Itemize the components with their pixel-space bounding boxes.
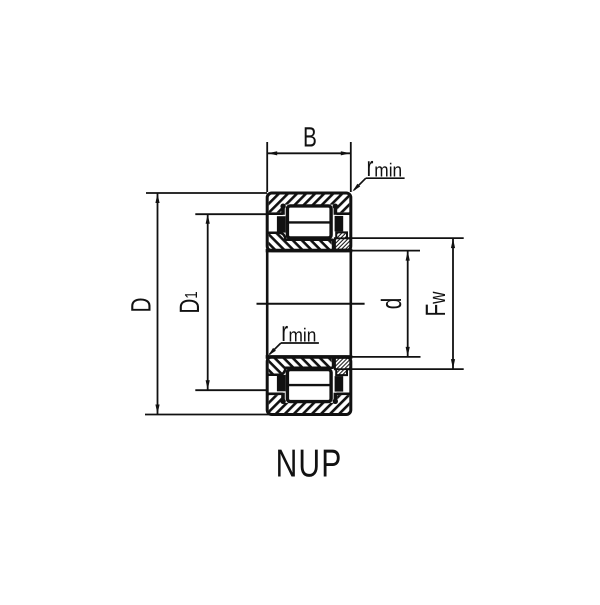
loose flange bottom mid line xyxy=(335,368,351,370)
inner ring bottom raceway xyxy=(284,366,333,369)
center axis xyxy=(257,303,365,305)
D1 extension line top xyxy=(195,213,267,215)
pocket corner dot bottom left xyxy=(280,399,285,404)
bore line top xyxy=(266,249,353,253)
d dimension line xyxy=(407,251,409,357)
inner ring bottom right face xyxy=(332,357,334,368)
roller top mid line xyxy=(286,221,332,223)
r min top arrow xyxy=(352,184,360,192)
right face mid segment xyxy=(349,249,352,359)
D dimension line xyxy=(157,193,159,415)
pocket corner dot top right xyxy=(333,204,338,209)
pocket corner connector top right xyxy=(334,206,338,215)
outer ring top flange edge right xyxy=(337,212,351,215)
outer ring top hatch xyxy=(269,195,350,213)
D arrow top xyxy=(155,193,159,203)
loose flange top xyxy=(335,232,351,249)
D arrow bottom xyxy=(155,405,159,415)
loose flange bottom xyxy=(335,358,351,375)
Fw extension line bottom xyxy=(352,368,464,370)
outer ring top flange edge left xyxy=(268,212,283,215)
svg-text:B: B xyxy=(303,122,317,153)
B arrow right xyxy=(341,151,351,155)
B dimension line xyxy=(267,152,351,154)
B extension line right xyxy=(350,142,352,192)
bore line bottom xyxy=(266,355,353,359)
r min top leader xyxy=(354,178,366,190)
d extension line bottom xyxy=(352,356,421,358)
d arrow bottom xyxy=(406,347,410,357)
outer ring bottom hatch xyxy=(269,395,350,413)
outer ring bottom flange edge right xyxy=(337,392,351,395)
cage bottom right xyxy=(335,376,344,392)
D extension line bottom xyxy=(145,414,279,416)
inner ring bottom hatch xyxy=(269,358,332,373)
B arrow left xyxy=(268,151,278,155)
roller bottom xyxy=(287,370,331,402)
D1 dimension line xyxy=(207,214,209,390)
roller bottom mid line xyxy=(286,384,332,386)
loose flange top mid line xyxy=(335,237,351,239)
D1 arrow top xyxy=(206,214,210,224)
r min bottom arrow xyxy=(268,348,276,356)
svg-text:Fw: Fw xyxy=(420,291,451,316)
pocket corner connector bottom right xyxy=(334,393,338,402)
r min bottom leader xyxy=(270,343,281,354)
inner ring top flange edge xyxy=(268,233,286,240)
inner ring top raceway xyxy=(284,239,333,242)
D1 extension line bottom xyxy=(195,389,267,391)
d arrow top xyxy=(406,251,410,261)
cage top left xyxy=(277,216,286,232)
D extension line top xyxy=(146,192,267,194)
D1 arrow bottom xyxy=(206,380,210,390)
inner ring bottom flange edge xyxy=(268,368,286,375)
svg-text:d: d xyxy=(376,298,407,310)
left face mid segment xyxy=(266,249,269,359)
Fw arrow bottom xyxy=(451,359,455,369)
svg-text:D: D xyxy=(125,298,156,313)
inner ring top hatch xyxy=(269,234,332,249)
inner ring top right face xyxy=(332,239,334,250)
cage top right xyxy=(335,216,344,232)
svg-text:NUP: NUP xyxy=(276,443,343,486)
Fw dimension line xyxy=(452,238,454,369)
bearing bottom half outline xyxy=(267,357,351,415)
bearing top half outline xyxy=(267,193,351,251)
Fw extension line top xyxy=(352,237,464,239)
Fw arrow top xyxy=(451,239,455,249)
roller top xyxy=(287,206,331,238)
r min top underline xyxy=(366,177,405,179)
pocket corner dot bottom right xyxy=(333,399,338,404)
B extension line left xyxy=(266,142,268,192)
cage bottom left xyxy=(277,375,286,391)
pocket corner dot top left xyxy=(280,204,285,209)
outer ring bottom flange edge left xyxy=(268,392,283,395)
r min bottom underline xyxy=(281,342,319,344)
pocket corner connector top left xyxy=(281,206,285,215)
d extension line top xyxy=(352,250,420,252)
pocket corner connector bottom left xyxy=(281,393,285,402)
